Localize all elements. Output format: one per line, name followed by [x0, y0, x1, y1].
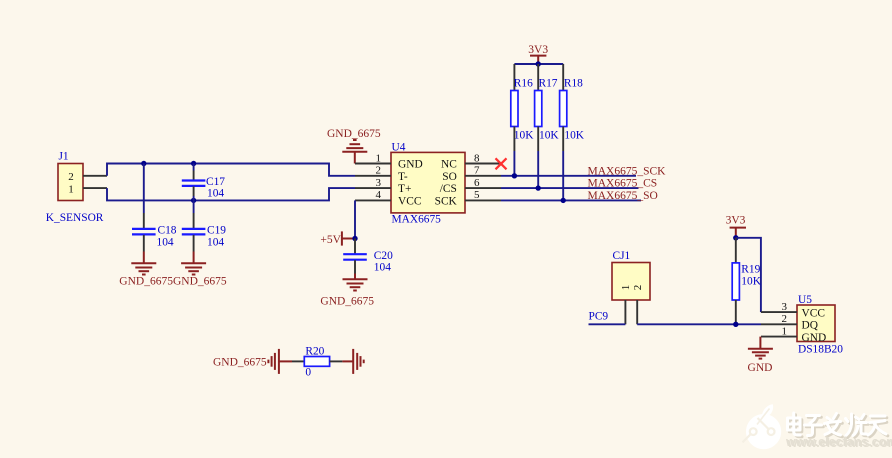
capacitor C17 — [182, 164, 225, 201]
U4 pin 8 — [465, 163, 501, 165]
svg-text:10K: 10K — [539, 129, 559, 141]
svg-text:C17: C17 — [206, 176, 225, 188]
svg-text:2: 2 — [632, 285, 644, 291]
svg-text:10K: 10K — [741, 276, 761, 288]
svg-text:R19: R19 — [741, 264, 760, 276]
svg-text:3V3: 3V3 — [528, 44, 548, 56]
svg-text:GND_6675: GND_6675 — [320, 295, 374, 307]
J1 pin 2 stub — [83, 175, 107, 177]
svg-text:MAX6675_CS: MAX6675_CS — [588, 178, 658, 190]
svg-text:DQ: DQ — [802, 320, 819, 332]
wire CJ1 pin2 to DQ — [637, 323, 761, 325]
CJ1 pin 2 stub — [636, 300, 638, 324]
wire R18 bottom — [562, 151, 564, 200]
svg-text:GND_6675: GND_6675 — [327, 128, 381, 140]
resistor R19 — [732, 238, 761, 324]
wire C19 branch — [193, 200, 195, 213]
svg-text:3V3: 3V3 — [726, 214, 746, 226]
node +5V / C20 — [352, 236, 357, 241]
resistor R20 — [292, 345, 342, 378]
ground GND_6675 under C18 — [119, 252, 173, 288]
ground GND under U5 — [748, 337, 773, 374]
svg-text:K_SENSOR: K_SENSOR — [46, 212, 104, 224]
U5 pin 1 — [761, 336, 797, 338]
svg-text:DS18B20: DS18B20 — [798, 343, 843, 355]
svg-text:3: 3 — [376, 177, 382, 189]
watermark logo circle — [743, 404, 782, 449]
svg-text:PC9: PC9 — [589, 311, 609, 323]
svg-text:R16: R16 — [514, 78, 533, 90]
power +5V — [320, 231, 355, 246]
U4 pin 2 — [355, 175, 391, 177]
svg-text:10K: 10K — [564, 129, 584, 141]
svg-text:MAX6675_SCK: MAX6675_SCK — [588, 165, 667, 177]
svg-text:+5V: +5V — [320, 234, 341, 246]
svg-text:T+: T+ — [398, 183, 411, 195]
node R19 / DQ — [733, 322, 738, 327]
svg-text:104: 104 — [374, 261, 391, 273]
node R17 — [536, 185, 541, 190]
wire U4 VCC down — [354, 200, 356, 238]
power 3V3 (right) — [726, 214, 746, 238]
svg-text:3: 3 — [782, 301, 788, 313]
IC U5 DS18B20 — [797, 294, 843, 355]
power 3V3 (left) — [528, 44, 548, 64]
svg-text:6: 6 — [474, 177, 480, 189]
svg-text:R20: R20 — [305, 345, 324, 357]
svg-text:1: 1 — [68, 183, 74, 195]
svg-text:5: 5 — [474, 189, 480, 201]
svg-text:J1: J1 — [59, 151, 69, 163]
svg-text:CJ1: CJ1 — [613, 250, 631, 262]
svg-text:C18: C18 — [158, 225, 177, 237]
node 3V3 / R19 — [733, 235, 738, 240]
node R18 — [561, 198, 566, 203]
wire 3V3 to U5 VCC — [736, 238, 761, 312]
resistor R18 — [560, 64, 585, 151]
U4 pin 5 — [465, 199, 501, 201]
resistor R17 — [535, 64, 560, 151]
svg-text:GND_6675: GND_6675 — [213, 357, 267, 369]
J1 pin 1 stub — [83, 187, 107, 189]
svg-text:VCC: VCC — [398, 196, 421, 208]
wire bottom rail — [107, 188, 355, 200]
svg-text:www.elecfans.com: www.elecfans.com — [785, 435, 892, 449]
capacitor C18 — [132, 213, 177, 252]
svg-text:C20: C20 — [374, 250, 393, 262]
node top rail / C17 — [191, 161, 196, 166]
svg-text:SCK: SCK — [435, 196, 458, 208]
IC U4 MAX6675 — [391, 141, 465, 225]
ground GND_6675 under C19 — [173, 252, 227, 288]
node top rail / C18 — [141, 161, 146, 166]
U4 pin 1 — [355, 163, 391, 165]
U4 pin 6 — [465, 187, 501, 189]
svg-text:4: 4 — [376, 189, 382, 201]
connector CJ1 — [612, 250, 650, 300]
wire net MAX6675_SO — [501, 199, 641, 201]
svg-text:R17: R17 — [539, 78, 558, 90]
svg-text:MAX6675: MAX6675 — [392, 214, 442, 226]
resistor R16 — [511, 64, 534, 151]
svg-text:7: 7 — [474, 165, 480, 177]
wire R17 bottom — [537, 151, 539, 188]
svg-text:1: 1 — [376, 152, 382, 164]
watermark chinese text 电子发烧友 — [789, 415, 888, 438]
CJ1 pin 1 stub — [624, 300, 626, 324]
no-connect X on pin 8 — [496, 158, 507, 169]
ground GND_6675 under C20 — [320, 274, 374, 308]
svg-text:0: 0 — [305, 366, 311, 378]
connector J1 — [46, 151, 104, 225]
svg-text:U5: U5 — [798, 294, 812, 306]
svg-text:C19: C19 — [207, 225, 226, 237]
svg-text:10K: 10K — [514, 129, 534, 141]
svg-text:1: 1 — [620, 285, 632, 291]
U4 pin 3 — [355, 187, 391, 189]
svg-text:1: 1 — [782, 325, 788, 337]
svg-text:GND_6675: GND_6675 — [119, 276, 173, 288]
svg-text:8: 8 — [474, 152, 480, 164]
node R16 — [512, 173, 517, 178]
svg-text:T-: T- — [398, 171, 408, 183]
svg-text:GND: GND — [748, 362, 773, 374]
svg-text:SO: SO — [442, 171, 457, 183]
svg-text:2: 2 — [376, 165, 382, 177]
ground GND_6675 above U4 pin 1 — [327, 128, 381, 164]
svg-text:U4: U4 — [392, 141, 406, 153]
wire pull-up top — [514, 63, 563, 65]
svg-text:GND: GND — [398, 159, 423, 171]
wire net MAX6675_CS — [501, 187, 639, 189]
U5 pin 2 — [761, 323, 797, 325]
wire PC9 — [589, 323, 626, 325]
node 3V3 — [536, 61, 541, 66]
ground GND_6675 left of R20 (rotated) — [213, 349, 292, 374]
capacitor C20 — [343, 239, 393, 274]
U4 pin 4 — [355, 199, 391, 201]
U4 pin 7 — [465, 175, 501, 177]
ground right (rotated) — [342, 349, 363, 374]
svg-text:2: 2 — [68, 171, 74, 183]
wire C18 branch — [143, 164, 145, 214]
svg-text:104: 104 — [207, 188, 224, 200]
svg-text:GND_6675: GND_6675 — [173, 276, 227, 288]
node bottom rail / C17 C19 — [191, 198, 196, 203]
wire net MAX6675_SCK — [501, 175, 636, 177]
U5 pin 3 — [761, 311, 797, 313]
wire R16 bottom — [513, 151, 515, 176]
svg-text:R18: R18 — [564, 78, 583, 90]
svg-text:VCC: VCC — [802, 307, 825, 319]
svg-text:NC: NC — [441, 159, 457, 171]
capacitor C19 — [182, 213, 226, 252]
svg-text:GND: GND — [802, 332, 827, 344]
svg-text:/CS: /CS — [440, 183, 457, 195]
svg-text:104: 104 — [207, 237, 224, 249]
svg-text:104: 104 — [157, 237, 174, 249]
wire top rail — [107, 164, 355, 176]
svg-text:MAX6675_SO: MAX6675_SO — [588, 190, 658, 202]
svg-text:2: 2 — [782, 313, 788, 325]
